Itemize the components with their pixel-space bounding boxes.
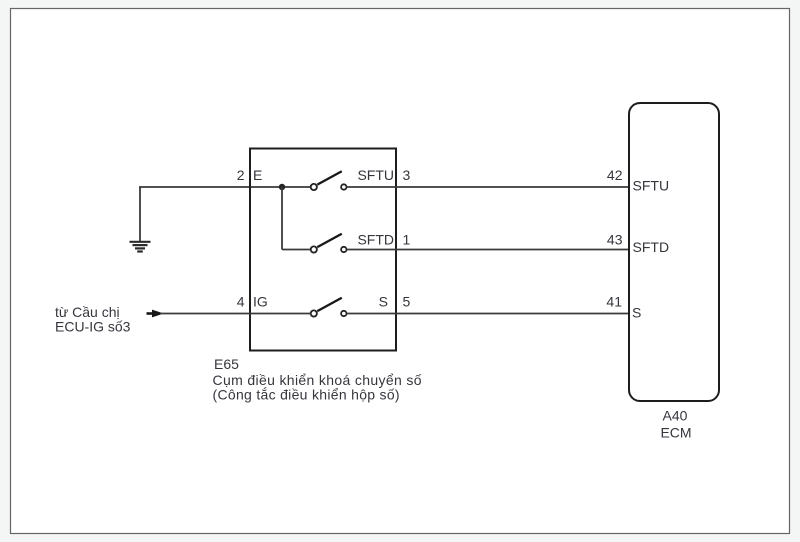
svg-text:2: 2 [237,167,245,183]
svg-text:E: E [253,167,262,183]
svg-text:S: S [632,305,641,321]
svg-text:SFTD: SFTD [357,232,394,248]
svg-text:4: 4 [237,294,245,310]
svg-text:SFTU: SFTU [357,167,394,183]
svg-text:5: 5 [403,294,411,310]
svg-text:IG: IG [253,294,268,310]
wire: fuse arrow to S switch [160,313,311,315]
svg-text:S: S [379,294,388,310]
wire: ground vertical drop [139,187,141,242]
switch SFTU [311,171,347,190]
box E65 [250,149,396,351]
svg-text:SFTD: SFTD [633,239,670,255]
wire: SFTU row to ECM [347,186,630,188]
svg-text:SFTU: SFTU [633,178,670,194]
ECM box A40 [629,103,719,401]
wire: ground horizontal to switch box row E [139,186,311,188]
wire: junction vertical to SFTD row [281,187,283,250]
svg-text:A40: A40 [663,408,688,424]
svg-text:41: 41 [606,294,622,310]
svg-text:ECU-IG số3: ECU-IG số3 [55,319,131,335]
svg-text:(Công tắc điều khiển hộp số): (Công tắc điều khiển hộp số) [213,387,400,403]
svg-text:1: 1 [403,232,411,248]
switch S [311,298,347,317]
node junction on E row [279,184,285,190]
wire: to SFTD switch [282,249,311,251]
wire: S row to ECM [347,313,630,315]
switch SFTD [311,234,347,253]
svg-text:3: 3 [403,167,411,183]
svg-text:43: 43 [607,232,623,248]
ground [130,242,151,252]
wire: SFTD row to ECM [347,249,630,251]
arrow from fuse [147,310,164,318]
svg-text:42: 42 [607,167,623,183]
svg-text:E65: E65 [214,356,239,372]
svg-text:ECM: ECM [660,425,691,441]
